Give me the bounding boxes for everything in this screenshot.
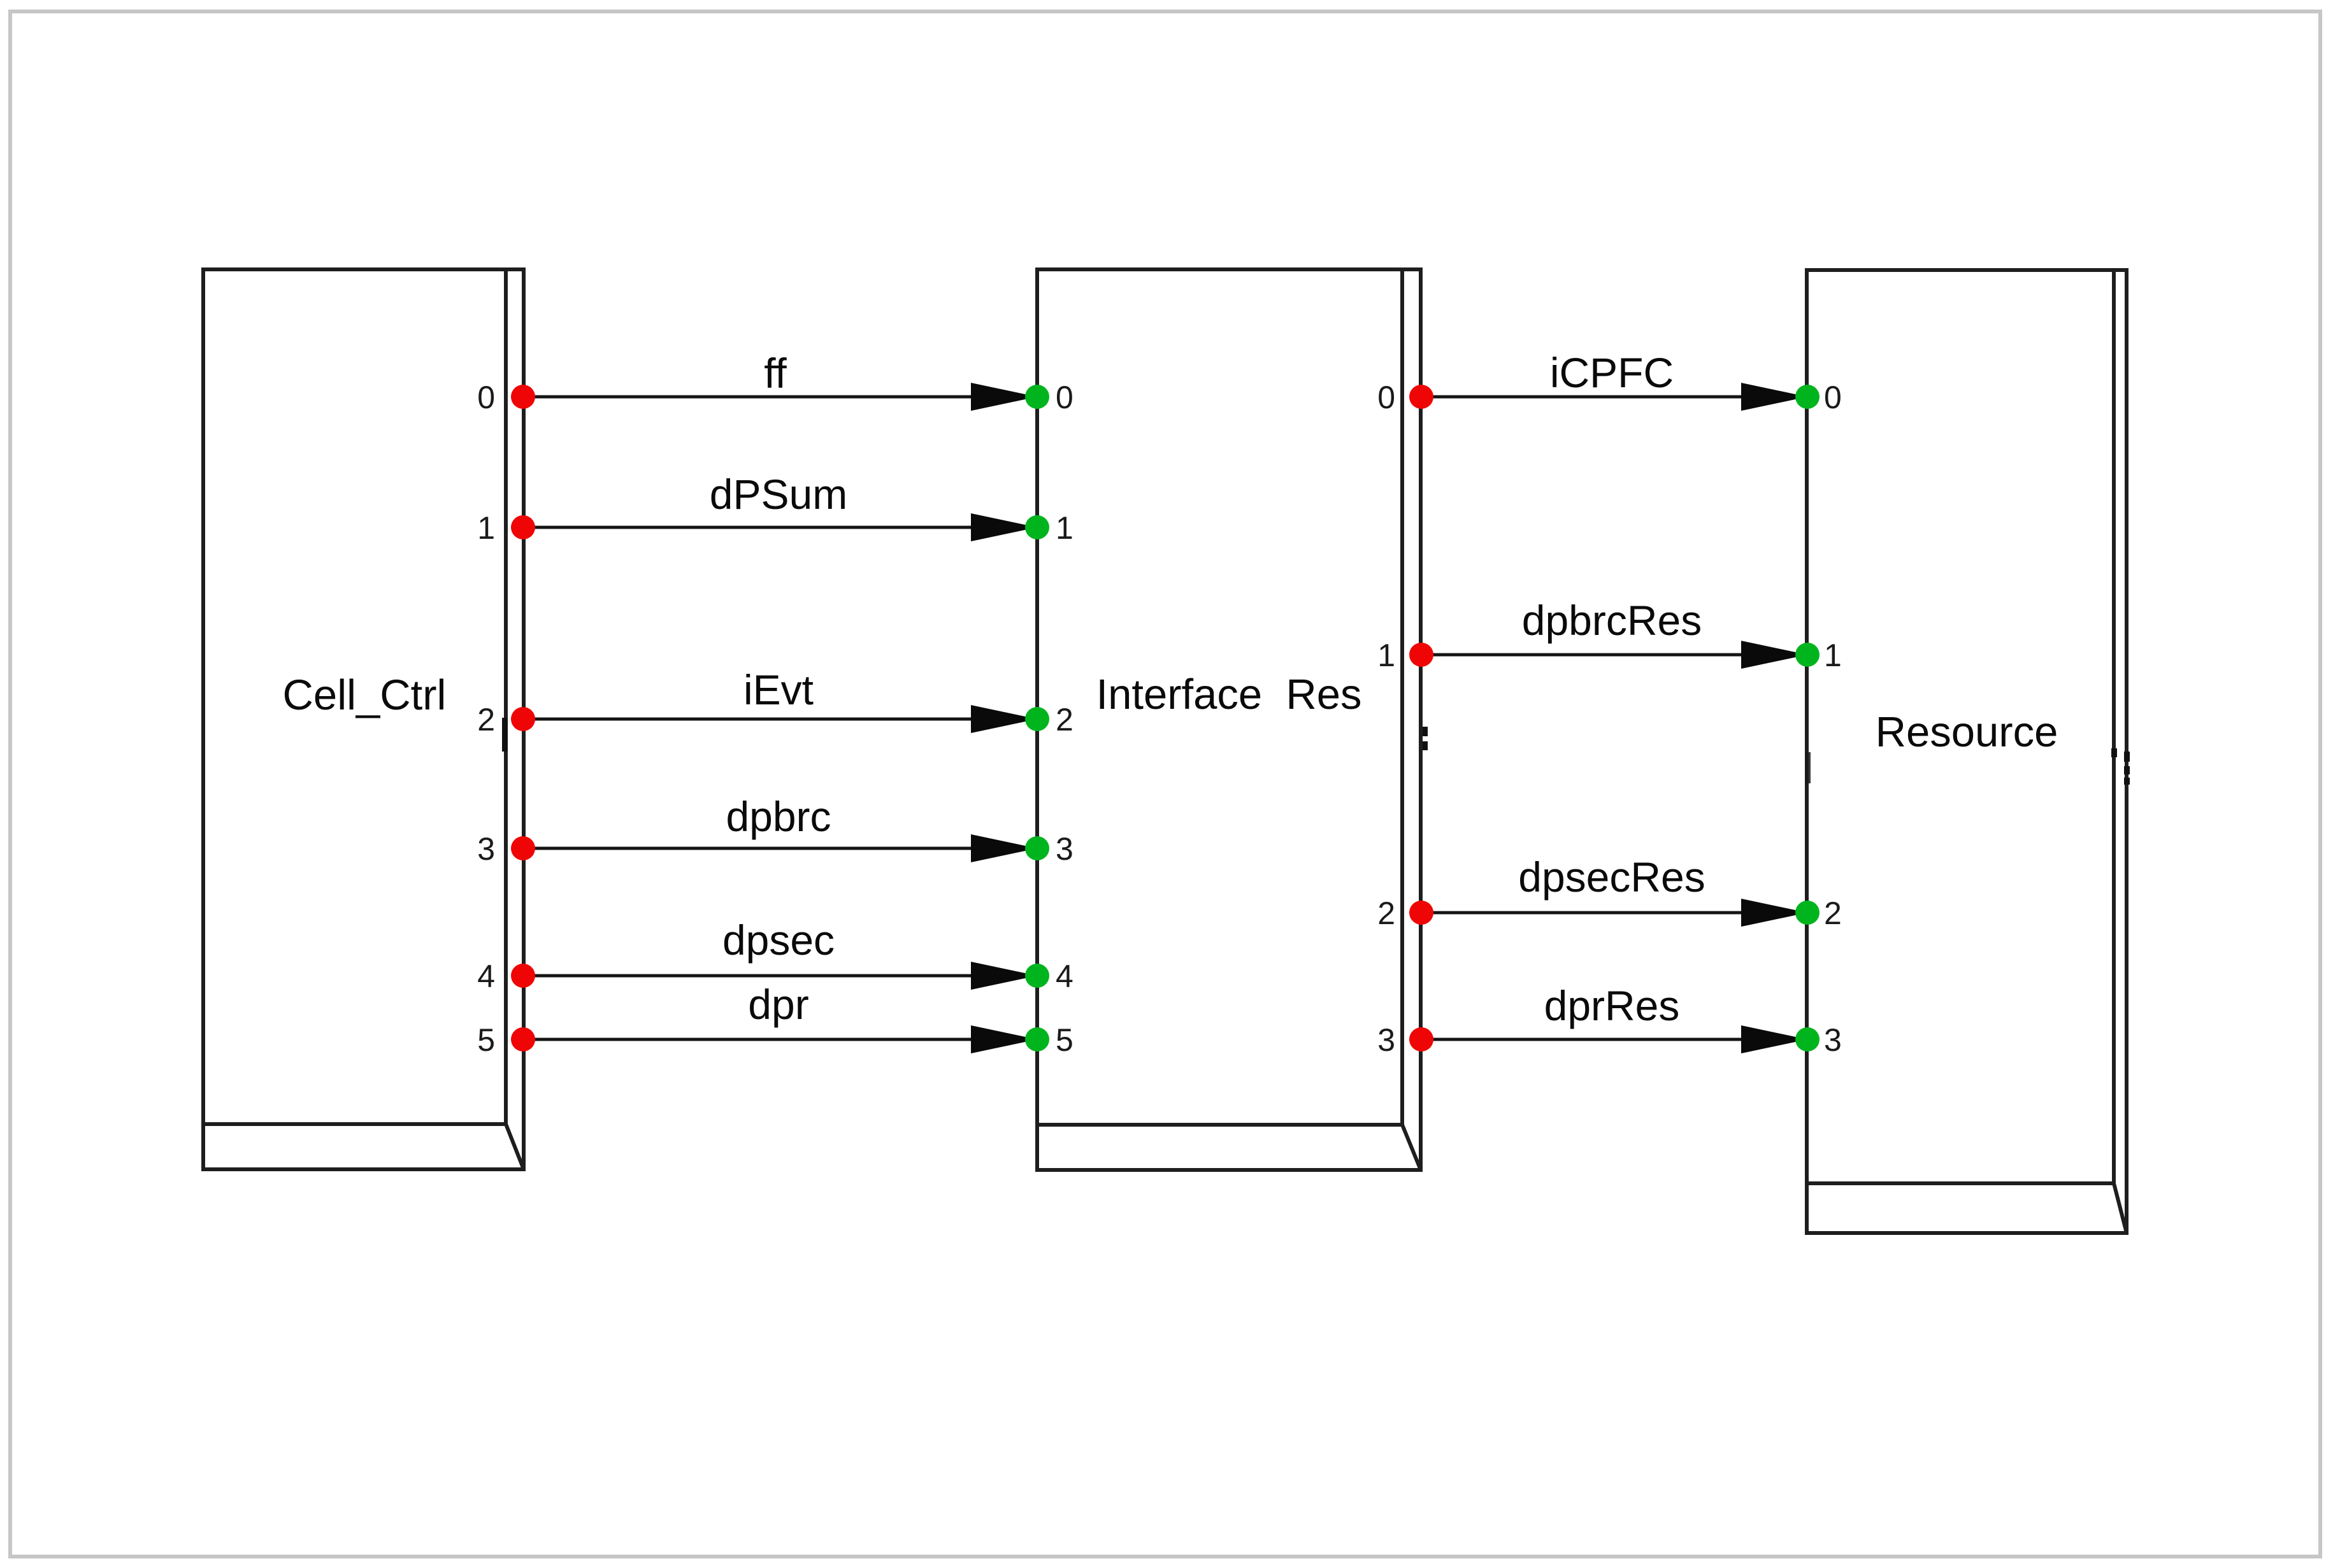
pin number 5 (Interface in): [1056, 1022, 1073, 1058]
block Resource outer 3D rect: [1807, 270, 2127, 1233]
svg-text:0: 0: [477, 380, 495, 415]
wire dpr: [522, 1038, 1037, 1041]
port Resource in 3 (green): [1795, 1027, 1820, 1051]
pin number 2 (Resource in): [1824, 895, 1842, 931]
port Resource in 0 (green): [1795, 385, 1820, 409]
svg-text:2: 2: [477, 702, 495, 738]
label iCPFC: [1550, 349, 1674, 396]
arrowhead ff: [971, 383, 1037, 411]
arrowhead iEvt: [971, 705, 1037, 733]
svg-text:dpsecRes: dpsecRes: [1518, 853, 1705, 901]
svg-text:1: 1: [1056, 510, 1073, 546]
port Cell_Ctrl out 3 (red): [511, 836, 535, 860]
pin number 3 (Interface in): [1056, 831, 1073, 867]
svg-text:dpr: dpr: [748, 981, 808, 1028]
svg-text:dpbrcRes: dpbrcRes: [1522, 597, 1702, 644]
svg-text:2: 2: [1824, 895, 1842, 931]
block Cell_Ctrl outer 3D rect: [203, 269, 524, 1169]
wire dprRes: [1421, 1038, 1807, 1041]
block Interface Res front face right edge: [1400, 269, 1404, 1125]
port Interface Res in 0 (green): [1025, 385, 1049, 409]
port Interface Res out 2 (red): [1409, 901, 1433, 925]
port Cell_Ctrl out 4 (red): [511, 964, 535, 988]
label dprRes: [1544, 982, 1680, 1029]
svg-text:0: 0: [1056, 380, 1073, 415]
pin number 0 (Interface in): [1056, 380, 1073, 415]
svg-text:1: 1: [1824, 638, 1842, 673]
svg-text:2: 2: [1056, 702, 1073, 738]
svg-text:iCPFC: iCPFC: [1550, 349, 1674, 396]
arrowhead dpsec: [971, 962, 1037, 990]
arrowhead dpbrcRes: [1741, 641, 1807, 669]
port Cell_Ctrl out 1 (red): [511, 515, 535, 539]
svg-text:5: 5: [1056, 1022, 1073, 1058]
pin number 3 (Resource in): [1824, 1022, 1842, 1058]
pin number 0 (Cell_Ctrl out): [477, 380, 495, 415]
wire dpsecRes: [1421, 911, 1807, 915]
arrowhead dPSum: [971, 513, 1037, 541]
svg-text:iEvt: iEvt: [743, 666, 814, 713]
label dpbrcRes: [1522, 597, 1702, 644]
stray smudge on Resource left edge: [1805, 752, 1811, 783]
pin number 1 (Interface in): [1056, 510, 1073, 546]
svg-text:1: 1: [477, 510, 495, 546]
pin number 4 (Interface in): [1056, 959, 1073, 994]
svg-text:Resource: Resource: [1876, 708, 2058, 756]
wire ff: [522, 396, 1037, 399]
wire dpsec: [522, 974, 1037, 978]
pin number 1 (Cell_Ctrl out): [477, 510, 495, 546]
block Resource corner diagonal: [2114, 1183, 2127, 1233]
svg-text:Interface Res: Interface Res: [1096, 671, 1361, 718]
wire dpbrcRes: [1421, 653, 1807, 657]
pin number 5 (Cell_Ctrl out): [477, 1022, 495, 1058]
svg-text:dpsec: dpsec: [722, 916, 835, 964]
pin number 2 (Interface in): [1056, 702, 1073, 738]
block Cell_Ctrl front face right edge: [504, 269, 508, 1124]
block Cell_Ctrl corner diagonal: [506, 1124, 524, 1169]
port Interface Res in 2 (green): [1025, 707, 1049, 731]
pin number 3 (Cell_Ctrl out): [477, 831, 495, 867]
pin number 4 (Cell_Ctrl out): [477, 959, 495, 994]
block Resource front face bottom edge: [1807, 1181, 2114, 1185]
label dpbrc: [726, 793, 831, 840]
port Interface Res out 3 (red): [1409, 1027, 1433, 1051]
arrowhead dprRes: [1741, 1025, 1807, 1053]
label dpr: [748, 981, 808, 1028]
pin number 2 (Interface out): [1377, 895, 1395, 931]
svg-text:3: 3: [1824, 1022, 1842, 1058]
wire dPSum: [522, 526, 1037, 529]
svg-text:0: 0: [1377, 380, 1395, 415]
stray mark below pin 2 of Cell_Ctrl: [502, 718, 508, 752]
wire iCPFC: [1421, 396, 1807, 399]
label iEvt: [743, 666, 814, 713]
svg-text:Cell_Ctrl: Cell_Ctrl: [283, 671, 447, 719]
svg-text:dPSum: dPSum: [710, 471, 847, 518]
port Cell_Ctrl out 5 (red): [511, 1027, 535, 1051]
port Interface Res in 4 (green): [1025, 964, 1049, 988]
stray ticks on Resource right edges: [2111, 748, 2130, 785]
port Resource in 1 (green): [1795, 643, 1820, 667]
label Resource title: [1876, 708, 2058, 756]
port Interface Res in 3 (green): [1025, 836, 1049, 860]
svg-text:3: 3: [1056, 831, 1073, 867]
port Interface Res in 1 (green): [1025, 515, 1049, 539]
svg-text:3: 3: [477, 831, 495, 867]
block Interface Res front face bottom edge: [1037, 1123, 1402, 1127]
arrowhead dpsecRes: [1741, 899, 1807, 927]
wire dpbrc: [522, 847, 1037, 850]
svg-text:0: 0: [1824, 380, 1842, 415]
pin number 2 (Cell_Ctrl out): [477, 702, 495, 738]
svg-text:2: 2: [1377, 895, 1395, 931]
block Interface Res corner diagonal: [1402, 1125, 1421, 1170]
port Interface Res out 0 (red): [1409, 385, 1433, 409]
svg-text:1: 1: [1377, 638, 1395, 673]
port Cell_Ctrl out 0 (red): [511, 385, 535, 409]
port Interface Res in 5 (green): [1025, 1027, 1049, 1051]
svg-text:4: 4: [477, 959, 495, 994]
label ff: [764, 350, 787, 397]
label Cell_Ctrl title: [283, 671, 447, 719]
block Interface Res outer 3D rect: [1037, 269, 1421, 1170]
pin number 1 (Interface out): [1377, 638, 1395, 673]
svg-text:dprRes: dprRes: [1544, 982, 1680, 1029]
arrowhead dpr: [971, 1025, 1037, 1053]
pin number 0 (Resource in): [1824, 380, 1842, 415]
svg-text:5: 5: [477, 1022, 495, 1058]
stray mark on Interface Res inner edge: [1423, 727, 1428, 750]
label dPSum: [710, 471, 847, 518]
port Resource in 2 (green): [1795, 901, 1820, 925]
label Interface Res title: [1096, 671, 1361, 718]
port Cell_Ctrl out 2 (red): [511, 707, 535, 731]
wire iEvt: [522, 718, 1037, 721]
port Interface Res out 1 (red): [1409, 643, 1433, 667]
pin number 0 (Interface out): [1377, 380, 1395, 415]
arrowhead dpbrc: [971, 834, 1037, 862]
pin number 3 (Interface out): [1377, 1022, 1395, 1058]
svg-text:dpbrc: dpbrc: [726, 793, 831, 840]
block Resource front face right edge: [2112, 270, 2116, 1183]
arrowhead iCPFC: [1741, 383, 1807, 411]
svg-text:4: 4: [1056, 959, 1073, 994]
label dpsecRes: [1518, 853, 1705, 901]
pin number 1 (Resource in): [1824, 638, 1842, 673]
label dpsec: [722, 916, 835, 964]
svg-text:ff: ff: [764, 350, 787, 397]
block Cell_Ctrl front face bottom edge: [203, 1122, 506, 1126]
svg-text:3: 3: [1377, 1022, 1395, 1058]
